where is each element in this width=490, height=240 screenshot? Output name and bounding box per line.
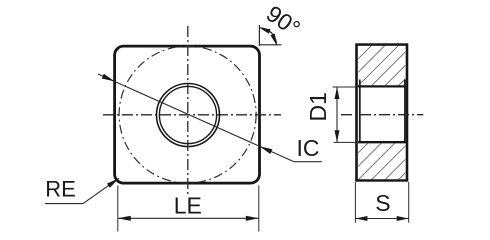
svg-text:IC: IC [297, 135, 320, 161]
svg-text:LE: LE [174, 192, 202, 218]
svg-text:RE: RE [45, 176, 76, 201]
svg-text:D1: D1 [305, 92, 331, 121]
svg-text:S: S [375, 190, 390, 216]
